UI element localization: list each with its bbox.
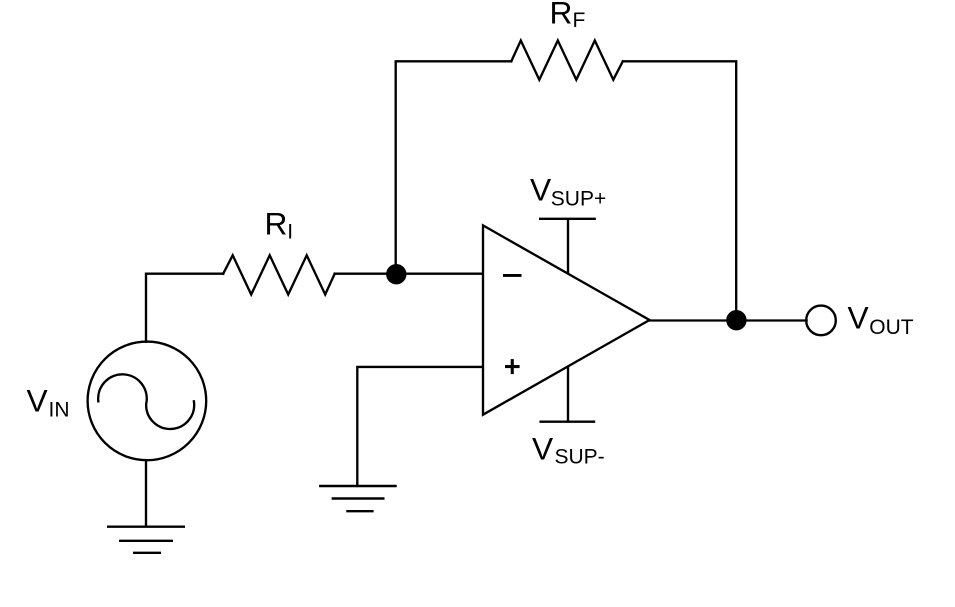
- wire: R_F right terminal down to output node B: [623, 61, 736, 320]
- output terminal circle: [806, 306, 836, 336]
- junction node A (inverting input): [386, 264, 406, 284]
- svg-text:F: F: [573, 9, 586, 32]
- svg-text:SUP-: SUP-: [555, 446, 605, 469]
- svg-text:R: R: [550, 0, 573, 31]
- resistor RF: [511, 41, 623, 80]
- label VSUP+: [530, 171, 606, 210]
- wire: op-amp non-inverting input to ground: [357, 367, 482, 486]
- sine symbol inside VIN: [98, 374, 194, 429]
- power pin V+ wire and bar: [540, 219, 595, 273]
- svg-text:V: V: [848, 300, 869, 336]
- svg-text:IN: IN: [49, 399, 70, 422]
- junction node B (output): [726, 310, 746, 330]
- wire: R_I right terminal to op-amp inverting input: [335, 273, 483, 275]
- svg-text:V: V: [532, 430, 553, 466]
- svg-text:OUT: OUT: [869, 316, 914, 339]
- svg-text:V: V: [27, 382, 48, 418]
- ground symbol at non-inverting input: [319, 486, 397, 511]
- svg-text:SUP+: SUP+: [551, 187, 606, 210]
- wire: node A up and over to R_F left terminal: [396, 61, 512, 273]
- wire: VIN source bottom to ground: [145, 460, 147, 525]
- op-amp U1 triangle: [483, 225, 650, 414]
- label VSUP-: [532, 430, 605, 468]
- label RF: [550, 0, 586, 32]
- voltage source VIN circle: [88, 342, 207, 461]
- ground symbol under VIN: [107, 527, 185, 553]
- wire: op-amp output to terminal: [650, 319, 807, 321]
- svg-text:R: R: [265, 205, 288, 241]
- wire: VIN source top to R_I left terminal: [146, 274, 223, 342]
- label RI: [265, 205, 294, 243]
- plus sign at non-inverting input: [505, 365, 520, 368]
- resistor RI: [223, 255, 335, 294]
- power pin V- wire and bar: [541, 367, 594, 422]
- minus sign at inverting input: [503, 274, 522, 277]
- svg-text:V: V: [530, 171, 551, 207]
- label VOUT: [848, 300, 914, 339]
- svg-text:I: I: [287, 221, 293, 244]
- label VIN: [27, 382, 70, 421]
